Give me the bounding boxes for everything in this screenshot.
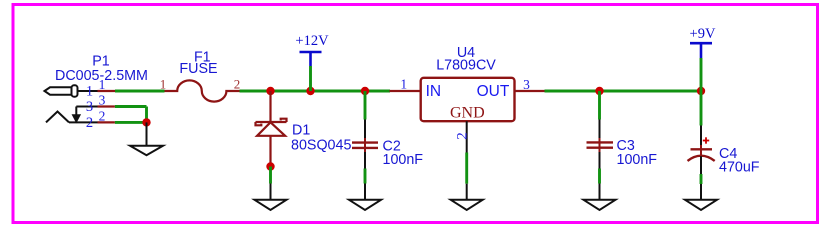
diode D1 triangle [257,122,285,136]
diode D1 cathode pin [269,91,271,122]
svg-text:2: 2 [99,108,106,123]
capacitor C2 top pin [364,120,366,139]
svg-text:2: 2 [234,76,241,91]
wire C3 drop [598,91,601,120]
junction D1 top [266,87,274,95]
junction C3 [595,87,603,95]
capacitor C2 plates [352,143,378,148]
P1 pin 1 stub [98,90,116,92]
wire +9V to bus [700,58,703,91]
wire U4 out to +9V node [545,90,702,93]
wire fuse to U4 [240,90,391,93]
U4 pin 1 line [390,90,421,92]
capacitor C4 bottom pin [700,156,702,174]
ground C3 [584,184,616,211]
svg-text:D1: D1 [292,122,310,138]
P1 pin 2 stub [98,121,115,123]
wire P1 pin3 vertical drop [145,107,148,123]
svg-text:3: 3 [99,92,106,107]
connector P1 pin3 line [76,106,97,108]
regulator U4 body [421,78,515,121]
ground C4 [685,184,717,210]
junction C2 [361,87,369,95]
wire U4 gnd [465,153,468,184]
capacitor C4 top pin [700,126,702,146]
wire C2 drop [364,91,367,120]
svg-text:1: 1 [400,77,407,92]
svg-text:1: 1 [160,76,167,91]
capacitor C4 plus sign [703,137,709,143]
wire D1 to ground [269,167,272,184]
diode D1 schottky bar [256,119,287,126]
svg-text:DC005-2.5MM: DC005-2.5MM [55,68,148,84]
wire C4 drop [700,91,703,126]
junction +12V [306,87,314,95]
ground U4 [451,184,483,210]
connector P1 pin2 bar [69,121,98,123]
svg-text:80SQ045: 80SQ045 [291,137,351,153]
power port +12V [300,52,322,66]
svg-text:L7809CV: L7809CV [436,57,496,73]
svg-text:IN: IN [426,83,442,100]
svg-text:+12V: +12V [295,33,329,49]
U4 pin 3 line [515,90,545,92]
connector P1 switch arrow [73,107,79,122]
capacitor C2 bottom pin [364,152,366,169]
diode D1 anode pin [269,136,271,167]
svg-text:GND: GND [450,105,485,122]
capacitor C4 curved plate [688,156,715,161]
junction C4 +9V [697,87,705,95]
svg-text:+9V: +9V [690,26,716,42]
wire P1 pin1 to fuse [115,90,165,93]
junction D1 bottom [266,162,274,170]
ground D1 [255,184,287,211]
ground C2 [349,184,381,211]
ground P1 [130,122,163,155]
capacitor C4 top plate [691,148,713,150]
wire C3 to ground [598,169,601,184]
svg-text:FUSE: FUSE [179,61,217,77]
capacitor C3 bottom pin [599,152,601,169]
svg-text:470uF: 470uF [719,160,760,176]
wire P1 pin2 horizontal [115,121,147,124]
connector P1 plug symbol [45,85,98,96]
svg-text:3: 3 [86,99,93,115]
wire C2 to ground [364,169,367,184]
svg-text:2: 2 [86,115,93,131]
wire C4 to ground [700,174,703,184]
capacitor C3 top pin [599,120,601,139]
svg-text:1: 1 [86,84,93,100]
wire P1 pin3 horizontal [115,105,147,108]
svg-text:2: 2 [454,132,470,140]
svg-text:OUT: OUT [477,83,510,100]
connector P1 sleeve chevron [46,112,69,123]
power port +9V [690,43,712,58]
wire +12V to bus [309,66,312,91]
svg-text:100nF: 100nF [617,152,658,168]
svg-text:100nF: 100nF [383,152,424,168]
U4 pin 2 line [466,121,468,152]
fuse F1 [165,80,240,101]
P1 pin 3 stub [98,105,115,107]
capacitor C3 plates [587,142,614,147]
svg-text:3: 3 [523,77,530,92]
junction P1 ground node [142,118,150,126]
